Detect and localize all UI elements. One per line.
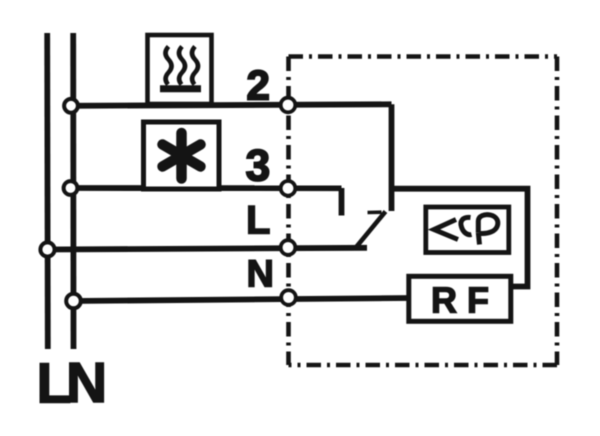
svg-text:R F: R F (431, 280, 489, 321)
svg-text:N: N (66, 351, 107, 415)
svg-text:3: 3 (246, 142, 271, 191)
svg-text:L: L (246, 199, 270, 243)
svg-text:2: 2 (247, 62, 270, 109)
svg-text:N: N (247, 254, 274, 296)
